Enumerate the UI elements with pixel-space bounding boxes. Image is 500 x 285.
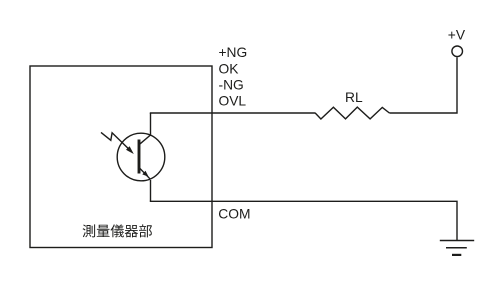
resistor RL xyxy=(315,107,389,119)
light arrow (input light) xyxy=(101,132,134,154)
svg-text:COM: COM xyxy=(218,207,250,222)
wire resistor to +V corner xyxy=(389,57,457,113)
svg-text:RL: RL xyxy=(345,90,363,105)
wire OVL horizontal xyxy=(150,112,316,114)
terminal +V circle xyxy=(452,46,463,57)
ground xyxy=(440,241,474,255)
svg-text:+V: +V xyxy=(448,28,466,43)
wire emitter down to COM line xyxy=(150,180,152,201)
svg-text:OK: OK xyxy=(219,61,240,76)
wire COM horizontal xyxy=(150,201,457,240)
svg-text:OVL: OVL xyxy=(219,94,247,109)
instrument box (測量儀器部 enclosure) xyxy=(30,66,212,248)
phototransistor xyxy=(117,133,165,181)
svg-text:-NG: -NG xyxy=(219,77,244,92)
wire collector up to OVL line xyxy=(150,113,152,136)
svg-text:+NG: +NG xyxy=(219,45,248,60)
label 測量儀器部 xyxy=(83,224,152,237)
